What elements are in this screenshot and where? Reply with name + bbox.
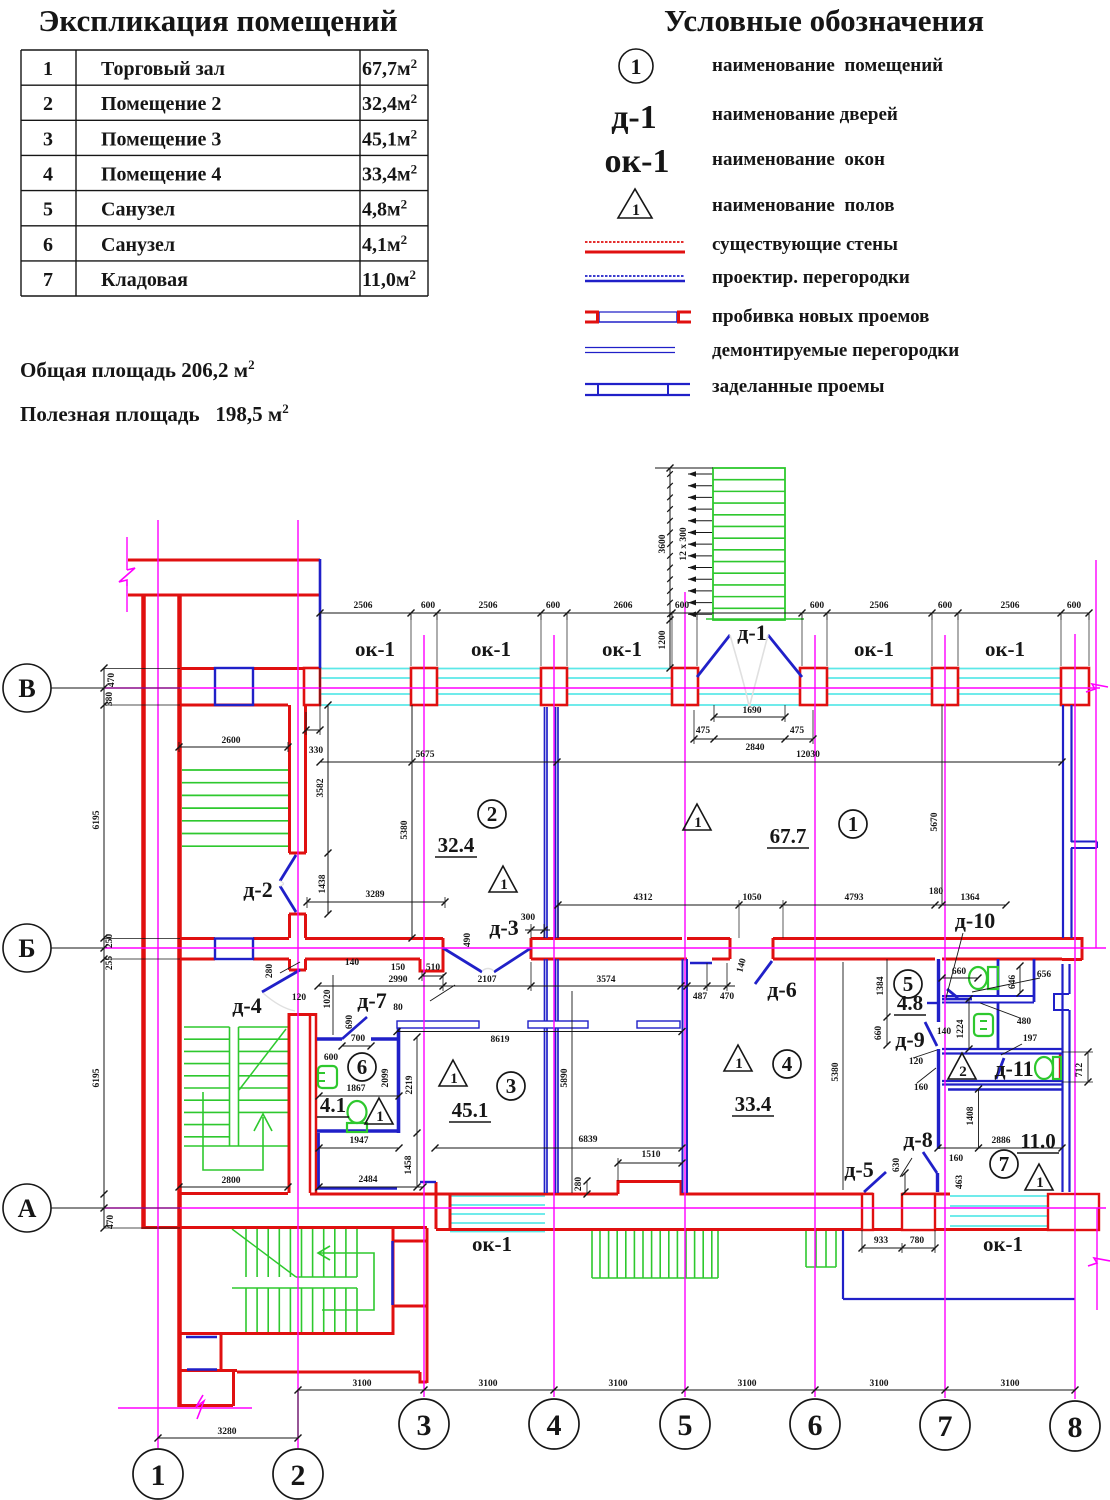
svg-text:32,4м2: 32,4м2 <box>362 91 417 115</box>
dims 487 470 room4 top <box>681 985 735 987</box>
svg-text:4: 4 <box>782 1052 793 1076</box>
wc south partition <box>942 998 972 1001</box>
stair east wall below B to d-4 <box>288 959 291 970</box>
dims 2800 2484 <box>179 1186 288 1188</box>
svg-text:600: 600 <box>546 601 561 611</box>
svg-text:646: 646 <box>1008 975 1018 990</box>
lower internal stair right flight treads <box>239 1026 289 1028</box>
svg-text:1: 1 <box>1036 1175 1044 1191</box>
window pier axis 5 <box>672 668 698 705</box>
axis circle 4 <box>529 1399 579 1449</box>
svg-text:ок-1: ок-1 <box>605 143 670 180</box>
svg-text:д-8: д-8 <box>903 1127 932 1152</box>
svg-text:463: 463 <box>955 1175 965 1190</box>
svg-text:1690: 1690 <box>743 706 762 716</box>
svg-text:д-5: д-5 <box>844 1157 873 1182</box>
svg-text:480: 480 <box>1017 1017 1032 1027</box>
wall B bottom face segments <box>179 958 215 961</box>
toilet room 5 <box>969 967 987 989</box>
svg-text:1: 1 <box>735 1056 743 1072</box>
stair east wall below d-4 line2 <box>309 1013 312 1193</box>
svg-text:1020: 1020 <box>323 989 333 1008</box>
porch stair walk line with arrow <box>318 1253 374 1310</box>
svg-text:660: 660 <box>874 1026 884 1041</box>
axis circle 3 <box>399 1399 449 1449</box>
svg-text:6195: 6195 <box>92 810 102 829</box>
svg-text:1408: 1408 <box>966 1106 976 1125</box>
svg-text:7: 7 <box>999 1152 1010 1176</box>
bottom wall south face <box>436 1228 1099 1231</box>
svg-text:330: 330 <box>309 746 324 756</box>
svg-text:Помещение 4: Помещение 4 <box>101 163 221 185</box>
stair diagonal cut line <box>239 1029 286 1090</box>
wall B top face segments <box>179 937 215 940</box>
porch stair lower flight treads <box>232 1287 357 1289</box>
left dim chain <box>103 668 105 1228</box>
axis grid 8 vertical <box>1074 634 1076 1399</box>
long south wall of side corridor <box>237 1371 420 1374</box>
west outer wall <box>141 595 146 1229</box>
svg-text:4,1м2: 4,1м2 <box>362 232 407 256</box>
svg-text:1: 1 <box>632 202 640 219</box>
svg-text:255: 255 <box>105 956 115 971</box>
window pier axis 4 <box>541 668 567 705</box>
dim 1200 entry <box>669 620 671 668</box>
svg-text:2600: 2600 <box>222 736 241 746</box>
svg-text:2107: 2107 <box>478 975 497 985</box>
sealed opening in wall B left <box>215 939 253 960</box>
axis grid 1 vertical <box>157 520 159 1448</box>
wall B door jamb d-6 right <box>772 938 775 959</box>
svg-text:5675: 5675 <box>416 750 435 760</box>
axis circle 6 <box>790 1399 840 1449</box>
svg-text:4: 4 <box>547 1409 562 1442</box>
sink near room 5 <box>974 1014 993 1036</box>
dim 300 d-3 <box>525 929 550 931</box>
wall V band inner face left part <box>179 704 288 707</box>
porch bottom walls <box>179 1369 237 1372</box>
svg-text:600: 600 <box>675 601 690 611</box>
svg-text:4.1: 4.1 <box>320 1093 346 1117</box>
room 6 south wall <box>317 1129 399 1133</box>
porch stair diagonal <box>232 1229 296 1277</box>
svg-text:475: 475 <box>790 726 805 736</box>
legend room-number symbol <box>619 49 653 83</box>
side shaft bottom connector <box>393 1305 427 1308</box>
svg-text:д-3: д-3 <box>489 915 518 940</box>
partition cap at bottom wall <box>317 1187 397 1190</box>
wall B right end box <box>1081 937 1084 960</box>
svg-text:ок-1: ок-1 <box>985 637 1025 661</box>
floor mark room 7 <box>1025 1164 1053 1190</box>
door d-4 jamb cap <box>289 969 306 972</box>
lower stair block west wall <box>178 1228 181 1407</box>
floor mark room 6 <box>365 1098 393 1124</box>
svg-text:490: 490 <box>463 933 473 948</box>
svg-text:наименование полов: наименование полов <box>712 195 894 216</box>
svg-text:5380: 5380 <box>831 1062 841 1081</box>
window pier axis 6 <box>800 668 827 705</box>
stair threshold line at door d-1 <box>706 618 804 620</box>
svg-text:600: 600 <box>938 601 953 611</box>
svg-text:Помещение 3: Помещение 3 <box>101 128 221 150</box>
svg-text:д-10: д-10 <box>955 908 995 933</box>
svg-text:пробивка новых проемов: пробивка новых проемов <box>712 306 929 327</box>
dims 933 780 bottom <box>862 1247 935 1249</box>
svg-text:280: 280 <box>265 964 275 979</box>
stair tread arrows <box>688 473 712 475</box>
svg-text:11.0: 11.0 <box>1020 1129 1056 1153</box>
bottom ramp green 2 <box>805 1230 807 1267</box>
axis circle A <box>3 1184 51 1232</box>
projected wall edge top tambour <box>319 559 322 668</box>
axis grid 5 vertical <box>684 592 686 1397</box>
svg-text:8: 8 <box>1068 1411 1083 1444</box>
svg-text:45,1м2: 45,1м2 <box>362 126 417 150</box>
axis grid B horizontal <box>104 947 1106 949</box>
room tag 3 <box>497 1072 525 1100</box>
magenta stub axis right of window band <box>1095 560 1097 948</box>
svg-text:Санузел: Санузел <box>101 234 175 256</box>
room 7 north wall <box>948 1088 1062 1091</box>
svg-text:160: 160 <box>914 1083 929 1093</box>
svg-text:2219: 2219 <box>405 1075 415 1094</box>
stair vertical dim 3600 <box>669 468 671 620</box>
svg-text:150: 150 <box>391 963 406 973</box>
door d-4 south jamb cap <box>288 1013 317 1016</box>
svg-text:Экспликация помещений: Экспликация помещений <box>38 3 397 38</box>
wall B door jamb d-6 left <box>729 938 732 959</box>
bottom ramp green 1 <box>591 1230 593 1278</box>
svg-text:470: 470 <box>106 1215 116 1230</box>
sink room 6 <box>318 1066 337 1088</box>
svg-text:2506: 2506 <box>354 601 373 611</box>
svg-text:700: 700 <box>351 1034 366 1044</box>
svg-text:2: 2 <box>43 93 53 115</box>
svg-text:1947: 1947 <box>350 1136 369 1146</box>
break mark right on axis V <box>1086 684 1108 692</box>
svg-text:300: 300 <box>521 913 536 923</box>
svg-text:заделанные проемы: заделанные проемы <box>712 376 885 397</box>
svg-text:470: 470 <box>720 992 735 1002</box>
leader d-8 <box>900 1158 912 1177</box>
svg-text:5: 5 <box>678 1409 693 1442</box>
dim 3280 <box>158 1437 298 1439</box>
svg-text:7: 7 <box>43 269 53 291</box>
svg-text:250: 250 <box>105 934 115 949</box>
lower stair block east wall <box>392 1228 395 1335</box>
svg-text:600: 600 <box>810 601 825 611</box>
window pier axis 3 <box>411 668 437 705</box>
svg-text:д-1: д-1 <box>611 99 657 136</box>
sealed opening lower stair east wall <box>391 1241 394 1305</box>
svg-text:3574: 3574 <box>597 975 616 985</box>
leader 656 <box>972 978 1040 992</box>
legend projected partitions <box>585 275 685 277</box>
wall A north face left block <box>179 1192 288 1195</box>
leader 160 <box>917 1068 936 1083</box>
partition rooms 3/corridor (double lines) <box>544 959 546 1193</box>
svg-text:1200: 1200 <box>658 630 668 649</box>
axis grid V horizontal <box>104 687 1100 689</box>
svg-text:4793: 4793 <box>845 893 864 903</box>
room 6 dims <box>342 1045 371 1047</box>
svg-text:280: 280 <box>574 1177 584 1192</box>
svg-text:475: 475 <box>696 726 711 736</box>
axis grid A horizontal <box>104 1207 1106 1209</box>
long dim 5675 / 12030 <box>320 761 1062 763</box>
svg-text:6195: 6195 <box>92 1068 102 1087</box>
svg-text:демонтируемые перегородки: демонтируемые перегородки <box>712 340 959 361</box>
upper internal stair treads <box>182 769 288 771</box>
svg-text:3100: 3100 <box>870 1379 889 1389</box>
axis circle 5 <box>660 1399 710 1449</box>
wall B door jamb d-3 right <box>530 938 533 959</box>
legend new openings <box>599 311 677 313</box>
axis grid 4 vertical <box>553 635 555 1397</box>
projected outline below building bottom-right <box>842 1230 844 1299</box>
axis circle 1 <box>133 1449 183 1499</box>
svg-text:4.8: 4.8 <box>897 991 923 1015</box>
svg-text:6: 6 <box>43 234 53 256</box>
axis circle 2 <box>273 1449 323 1499</box>
wc2 partition vertical <box>1033 959 1036 1002</box>
dims below wall B left <box>318 985 727 987</box>
svg-text:33,4м2: 33,4м2 <box>362 161 417 185</box>
svg-text:12030: 12030 <box>796 750 820 760</box>
dim 1020 590 <box>332 975 334 1035</box>
room 3 dims <box>397 1031 682 1033</box>
svg-text:7: 7 <box>938 1410 953 1443</box>
bottom corner pier <box>1048 1194 1099 1230</box>
svg-text:1: 1 <box>43 58 53 80</box>
svg-text:наименование окон: наименование окон <box>712 149 885 170</box>
svg-text:1: 1 <box>151 1459 166 1492</box>
svg-text:487: 487 <box>693 992 708 1002</box>
svg-text:6839: 6839 <box>579 1135 598 1145</box>
svg-text:наименование дверей: наименование дверей <box>712 104 898 125</box>
partition rooms 3/4 <box>682 959 684 1193</box>
axis circle 8 <box>1050 1401 1100 1451</box>
bottom axis dim chain 3100s <box>298 1389 1075 1391</box>
tambour top wall outer <box>128 559 320 562</box>
svg-text:197: 197 <box>1023 1034 1038 1044</box>
svg-text:3100: 3100 <box>353 1379 372 1389</box>
bath west partition upper <box>937 959 940 1022</box>
bathroom cluster dims <box>886 959 888 1045</box>
svg-text:3100: 3100 <box>738 1379 757 1389</box>
porch cut axis bottom-left <box>118 1407 252 1409</box>
svg-text:2840: 2840 <box>746 743 765 753</box>
svg-text:120: 120 <box>292 993 307 1003</box>
sealed opening in tambour wall V <box>215 668 253 705</box>
axis circle 7 <box>920 1400 970 1450</box>
extension lines from piers to dim chain <box>410 620 412 666</box>
partition rooms 2/1 (double lines) <box>544 707 546 938</box>
svg-text:Б: Б <box>18 934 35 963</box>
room tag 4 <box>773 1050 801 1078</box>
svg-text:2606: 2606 <box>614 601 633 611</box>
vertical dims 3582 1438 <box>327 705 329 914</box>
break mark top-left <box>126 537 128 570</box>
leader 197 <box>1001 1044 1022 1055</box>
svg-text:существующие стены: существующие стены <box>712 234 898 255</box>
lower stair block south wall <box>179 1332 393 1335</box>
stair west wall <box>177 595 182 1407</box>
svg-text:5: 5 <box>43 199 53 221</box>
window pier axis 7 <box>932 668 958 705</box>
svg-text:600: 600 <box>324 1053 339 1063</box>
svg-text:712: 712 <box>1075 1063 1085 1078</box>
door d-8 leaf <box>923 1152 937 1173</box>
door d-4 leaf <box>262 970 300 992</box>
svg-text:Условные обозначения: Условные обозначения <box>664 3 984 38</box>
svg-text:2506: 2506 <box>870 601 889 611</box>
svg-text:2886: 2886 <box>992 1136 1011 1146</box>
legend existing walls <box>585 241 685 243</box>
svg-text:45.1: 45.1 <box>452 1098 489 1122</box>
svg-text:ок-1: ок-1 <box>471 637 511 661</box>
svg-text:д-11: д-11 <box>994 1056 1033 1081</box>
legend floor symbol <box>618 189 652 218</box>
svg-text:470: 470 <box>107 673 117 688</box>
svg-text:д-2: д-2 <box>243 877 272 902</box>
svg-text:180: 180 <box>929 887 944 897</box>
porch inner wall vertical <box>220 1335 223 1370</box>
svg-text:1: 1 <box>376 1109 384 1125</box>
room tag 6 <box>348 1053 376 1081</box>
porch stair upper flight treads <box>245 1229 247 1277</box>
break mark porch <box>196 1395 204 1419</box>
svg-text:4,8м2: 4,8м2 <box>362 197 407 221</box>
svg-text:Кладовая: Кладовая <box>101 269 188 291</box>
bottom wall north face segments <box>310 1193 618 1196</box>
svg-text:600: 600 <box>1067 601 1082 611</box>
dim 2600 stair <box>179 746 288 748</box>
svg-text:2506: 2506 <box>479 601 498 611</box>
side corridor east wall <box>426 1228 429 1383</box>
svg-text:2: 2 <box>959 1064 967 1080</box>
svg-text:д-6: д-6 <box>767 977 796 1002</box>
door d-2 south jamb cap <box>289 852 306 855</box>
dim 330 <box>306 729 320 731</box>
toilet room 6 <box>348 1101 367 1123</box>
dim 5380 room 2 <box>411 705 413 938</box>
svg-text:4: 4 <box>43 163 53 185</box>
door d-7 leaf <box>342 1017 367 1039</box>
svg-text:1: 1 <box>694 815 702 831</box>
bath west partition mid <box>937 1049 940 1149</box>
door d-2 north jamb cap <box>289 913 306 916</box>
side shaft top connector <box>393 1240 427 1243</box>
svg-text:Помещение 2: Помещение 2 <box>101 93 221 115</box>
svg-text:д-9: д-9 <box>895 1027 924 1052</box>
svg-text:80: 80 <box>393 1003 403 1013</box>
axis grid 6 vertical <box>814 635 816 1397</box>
door d-6 leaf <box>755 961 772 984</box>
door d-1 leaves <box>697 635 730 677</box>
svg-text:600: 600 <box>421 601 436 611</box>
room tag 7 <box>990 1150 1018 1178</box>
svg-text:1867: 1867 <box>347 1084 366 1094</box>
svg-text:наименование помещений: наименование помещений <box>712 55 943 76</box>
room tag 1 <box>839 810 867 838</box>
dim 5670 room1 <box>941 705 943 905</box>
svg-text:3: 3 <box>417 1409 432 1442</box>
room tag 2 <box>478 800 506 828</box>
axis grid 7 vertical <box>944 635 946 1398</box>
leader 120 <box>913 1050 937 1058</box>
door d-11 leaf <box>996 1058 1004 1079</box>
room tag 5 <box>894 970 922 998</box>
east wall room 1 (blue double) <box>1062 705 1064 938</box>
door d-2 leaves <box>280 855 296 881</box>
magenta stub right lower <box>1096 1208 1098 1310</box>
wall V band north face left part <box>179 667 215 670</box>
wall B door jamb d-3 left block <box>420 938 443 971</box>
svg-text:6: 6 <box>357 1055 368 1079</box>
svg-text:3100: 3100 <box>609 1379 628 1389</box>
svg-text:510: 510 <box>426 963 441 973</box>
svg-text:1: 1 <box>848 812 859 836</box>
tambour top wall inner <box>128 594 320 597</box>
top dimension chain <box>320 612 1089 614</box>
floor mark room 4 <box>724 1045 752 1071</box>
svg-text:2099: 2099 <box>381 1068 391 1087</box>
toilet at d-11 <box>1035 1057 1053 1079</box>
demolished partition bar 1 <box>397 1021 479 1028</box>
svg-text:120: 120 <box>909 1057 924 1067</box>
lower internal stair left flight treads <box>184 1026 230 1028</box>
svg-text:д-4: д-4 <box>232 993 261 1018</box>
svg-text:1: 1 <box>500 877 508 893</box>
door d-10 leaf <box>947 989 958 998</box>
niche in east wall room 4 <box>1054 994 1069 1010</box>
svg-text:Полезная площадь 198,5 м2: Полезная площадь 198,5 м2 <box>20 401 289 426</box>
svg-text:2: 2 <box>291 1459 306 1492</box>
svg-text:160: 160 <box>949 1154 964 1164</box>
svg-text:3: 3 <box>506 1074 517 1098</box>
svg-text:д-7: д-7 <box>357 988 386 1013</box>
svg-text:1050: 1050 <box>743 893 762 903</box>
stair east wall below d-4 line1 <box>288 1013 291 1193</box>
stair east wall upper segment line1 <box>288 705 291 853</box>
floor mark room 5 <box>948 1053 976 1079</box>
svg-text:1438: 1438 <box>318 874 328 893</box>
door d-3 leaves <box>443 948 482 972</box>
svg-text:Санузел: Санузел <box>101 199 175 221</box>
svg-text:3289: 3289 <box>366 890 385 900</box>
svg-text:140: 140 <box>937 1027 952 1037</box>
svg-text:2506: 2506 <box>1001 601 1020 611</box>
red strip at toilet d-11 <box>1059 1054 1061 1080</box>
partition below room 6 <box>317 1133 320 1188</box>
dim 510 jamb <box>422 975 443 977</box>
bath west partition lower <box>936 1173 939 1192</box>
stair east wall below d-4 line3 <box>315 1013 318 1193</box>
stair bottom edge <box>184 1145 288 1147</box>
svg-text:ок-1: ок-1 <box>983 1232 1023 1256</box>
svg-text:5380: 5380 <box>400 820 410 839</box>
svg-text:630: 630 <box>892 1158 902 1173</box>
svg-text:1384: 1384 <box>876 976 886 995</box>
partition stub below wall B <box>690 962 712 964</box>
svg-text:690: 690 <box>345 1015 355 1030</box>
axis circle V <box>3 664 51 712</box>
small jog left of room5 <box>927 1002 938 1004</box>
window glazing lines bottom-right band ok-1 <box>950 1195 1048 1197</box>
dims room1 top <box>558 904 783 906</box>
